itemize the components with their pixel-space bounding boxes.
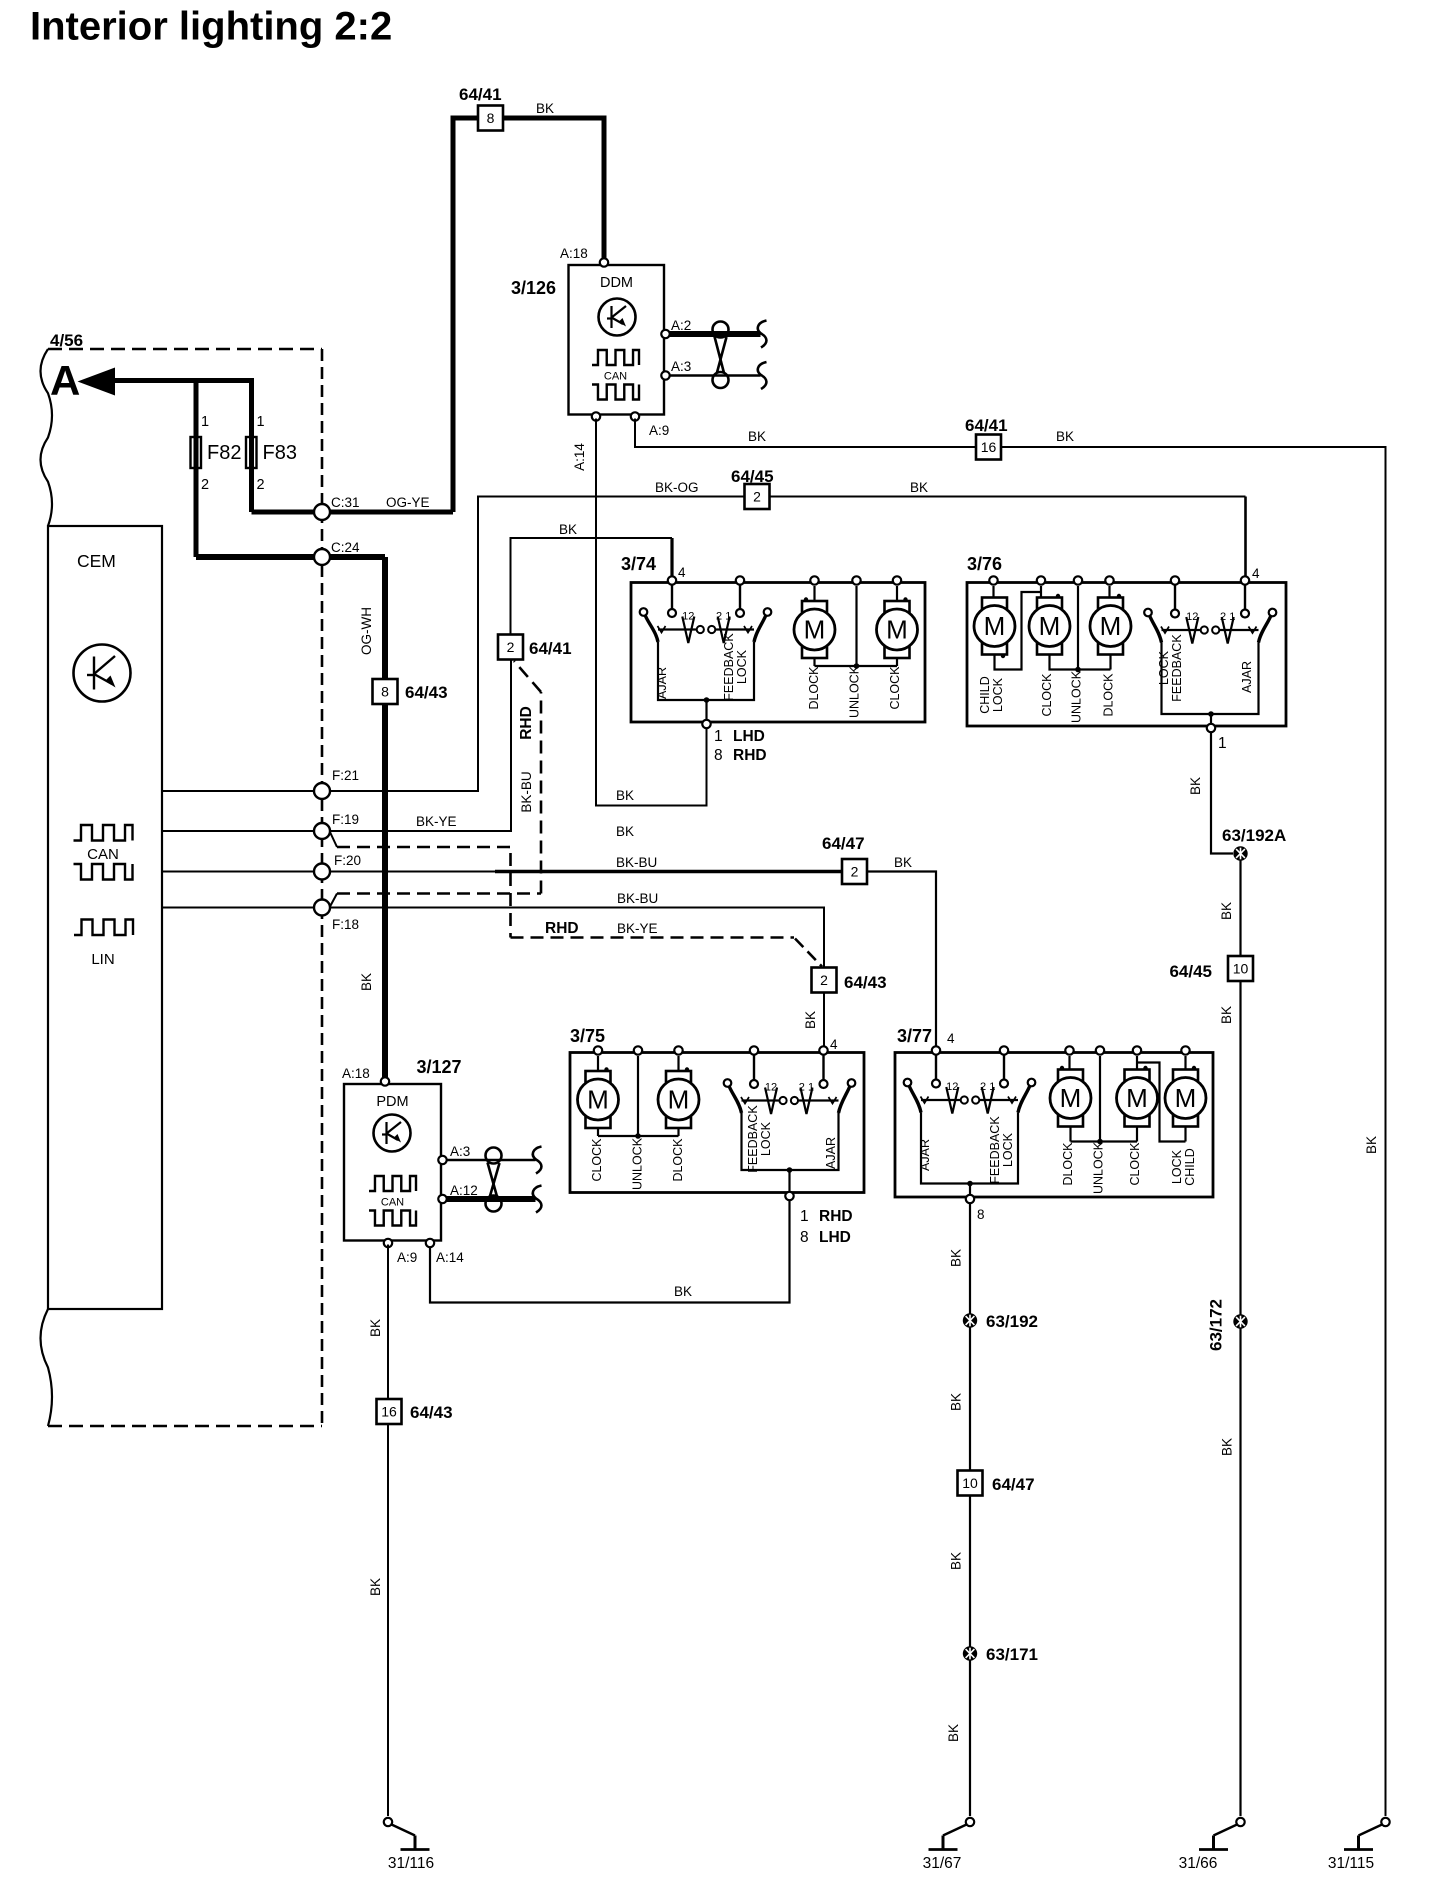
wire — [387, 1245, 389, 1399]
svg-text:F:18: F:18 — [332, 917, 359, 932]
3/75 top pin — [634, 1046, 642, 1054]
wire — [682, 617, 694, 644]
wire — [337, 892, 541, 895]
svg-text:BK: BK — [949, 1249, 964, 1267]
svg-text:8: 8 — [800, 1229, 809, 1246]
junction — [604, 1067, 608, 1071]
svg-text:1: 1 — [800, 1208, 809, 1225]
svg-text:M: M — [1100, 611, 1122, 641]
wire — [969, 1203, 971, 1314]
svg-text:2: 2 — [851, 864, 859, 880]
svg-text:8: 8 — [381, 684, 389, 700]
terminal — [904, 1079, 912, 1087]
wire — [995, 592, 1042, 670]
3/77 top pin — [1096, 1046, 1104, 1054]
wire — [495, 870, 842, 873]
junction — [787, 1167, 793, 1173]
wire — [1211, 732, 1233, 854]
door module PDM 3/127 — [344, 1084, 441, 1241]
door module 3/76 — [967, 583, 1286, 727]
wire break — [533, 1147, 542, 1174]
terminal — [972, 1096, 979, 1103]
DDM pin A:3 — [661, 371, 669, 379]
svg-text:64/41: 64/41 — [529, 639, 572, 658]
wire — [896, 586, 898, 601]
wire — [1137, 1063, 1186, 1142]
wire — [1078, 668, 1111, 670]
junction — [804, 597, 808, 601]
3/77 top pin — [1065, 1046, 1073, 1054]
svg-text:3/75: 3/75 — [570, 1026, 605, 1046]
wire — [1100, 1140, 1137, 1142]
3/76 pin 1 — [1207, 724, 1215, 732]
wire — [330, 497, 745, 792]
svg-text:2: 2 — [257, 477, 265, 493]
terminal — [1201, 626, 1208, 633]
wire — [430, 1200, 790, 1303]
svg-text:8: 8 — [714, 747, 723, 764]
junction — [1117, 594, 1121, 598]
PDM pin A:3 — [438, 1156, 446, 1164]
3/77 pin 8 — [966, 1195, 974, 1203]
svg-text:12: 12 — [1186, 611, 1198, 623]
DDM K symbol — [599, 299, 636, 336]
svg-text:BK: BK — [536, 101, 554, 116]
3/74 top pin — [810, 576, 818, 584]
svg-text:64/41: 64/41 — [965, 416, 1008, 435]
svg-text:16: 16 — [381, 1404, 397, 1420]
svg-text:CHILD: CHILD — [1183, 1148, 1197, 1186]
connector 64/43 pin 16 — [377, 1399, 402, 1424]
connector 64/41 pin 2 — [498, 635, 523, 660]
wire — [509, 853, 512, 938]
svg-text:F:19: F:19 — [332, 812, 359, 827]
svg-text:BK-OG: BK-OG — [655, 480, 699, 495]
junction — [1060, 1066, 1064, 1070]
CEM CAN symbol — [74, 825, 133, 841]
svg-text:A:14: A:14 — [572, 443, 587, 471]
wire — [668, 331, 761, 337]
svg-text:64/45: 64/45 — [731, 467, 774, 486]
wire — [1008, 1097, 1016, 1104]
3/76 top pin — [989, 576, 997, 584]
wire — [337, 846, 511, 849]
svg-text:A:3: A:3 — [450, 1144, 470, 1159]
svg-text:10: 10 — [962, 1475, 978, 1491]
wire — [1186, 617, 1198, 644]
svg-text:RHD: RHD — [545, 920, 579, 937]
wire — [969, 1184, 971, 1195]
svg-text:4: 4 — [678, 565, 686, 580]
svg-text:CLOCK: CLOCK — [1128, 1142, 1142, 1186]
svg-text:16: 16 — [981, 439, 997, 455]
terminal — [1028, 1079, 1036, 1087]
wire — [1210, 714, 1212, 723]
svg-text:BK: BK — [1364, 1136, 1379, 1154]
door module DDM 3/126 — [569, 265, 665, 415]
svg-text:BK: BK — [949, 1393, 964, 1411]
wire — [1162, 629, 1201, 631]
wire — [716, 628, 754, 630]
svg-text:F:21: F:21 — [332, 768, 359, 783]
wire — [1249, 627, 1257, 634]
wire — [668, 374, 761, 376]
wire break — [758, 321, 767, 348]
wire — [896, 658, 898, 666]
junction — [685, 1067, 689, 1071]
wire — [112, 381, 252, 513]
svg-text:3/127: 3/127 — [417, 1057, 462, 1077]
twisted pair symbol — [486, 1148, 502, 1164]
svg-text:64/43: 64/43 — [405, 683, 448, 702]
svg-text:2 1: 2 1 — [980, 1081, 995, 1093]
terminal — [791, 1097, 798, 1104]
svg-text:BK: BK — [894, 855, 912, 870]
svg-text:2: 2 — [201, 477, 209, 493]
junction — [1056, 594, 1060, 598]
wire — [1050, 655, 1079, 670]
wire — [671, 586, 673, 610]
wire break — [533, 1186, 542, 1213]
DDM pin A:2 — [661, 330, 669, 338]
svg-text:CLOCK: CLOCK — [888, 666, 902, 710]
svg-text:BK: BK — [1219, 902, 1234, 920]
wire — [969, 1496, 971, 1647]
svg-text:31/115: 31/115 — [1328, 1855, 1374, 1872]
DDM CAN symbol — [592, 350, 639, 365]
svg-text:M: M — [1175, 1083, 1197, 1113]
fuse F83 — [246, 437, 257, 468]
svg-text:UNLOCK: UNLOCK — [631, 1137, 645, 1190]
svg-text:LHD: LHD — [733, 728, 765, 745]
svg-text:8: 8 — [977, 1207, 985, 1222]
3/74 pin 1/8 — [702, 720, 710, 728]
svg-text:4/56: 4/56 — [50, 331, 83, 350]
svg-text:LOCK: LOCK — [1170, 1149, 1184, 1184]
3/75 top pin — [750, 1046, 758, 1054]
wire — [511, 538, 673, 635]
wire — [1040, 586, 1042, 598]
svg-text:F83: F83 — [263, 442, 297, 464]
splice 63/171 — [963, 1646, 977, 1660]
svg-text:BK: BK — [1056, 429, 1074, 444]
svg-text:DLOCK: DLOCK — [1061, 1142, 1075, 1186]
wire — [921, 1097, 929, 1104]
wire — [48, 1425, 322, 1428]
wire — [330, 908, 825, 968]
3/77 top pin — [1181, 1046, 1189, 1054]
wire — [921, 1113, 1018, 1184]
svg-text:M: M — [1126, 1083, 1148, 1113]
svg-text:BK: BK — [559, 522, 577, 537]
svg-text:12: 12 — [682, 611, 694, 623]
wire — [1222, 617, 1234, 644]
wire — [1161, 627, 1169, 634]
wire — [1184, 1127, 1186, 1142]
wire — [658, 628, 696, 630]
svg-text:UNLOCK: UNLOCK — [848, 665, 862, 718]
wire — [1244, 497, 1247, 580]
svg-text:C:31: C:31 — [331, 495, 360, 510]
svg-text:PDM: PDM — [376, 1094, 408, 1110]
wire — [867, 872, 936, 1050]
PDM K symbol — [374, 1115, 411, 1152]
torn sheet edge — [41, 349, 53, 526]
svg-text:31/66: 31/66 — [1179, 1855, 1218, 1872]
terminal — [668, 609, 676, 617]
svg-text:2: 2 — [507, 639, 515, 655]
connector 64/41 pin 8 — [478, 106, 503, 131]
wire — [1109, 655, 1111, 670]
svg-text:BK: BK — [1188, 777, 1203, 795]
wire — [670, 538, 673, 579]
svg-text:BK: BK — [803, 1011, 818, 1029]
terminal — [640, 608, 648, 616]
svg-text:M: M — [1060, 1083, 1082, 1113]
svg-text:BK: BK — [1219, 1006, 1234, 1024]
terminal — [848, 1079, 856, 1087]
svg-text:2: 2 — [820, 972, 828, 988]
svg-text:64/47: 64/47 — [992, 1475, 1035, 1494]
wire — [765, 1088, 777, 1115]
svg-text:2 1: 2 1 — [799, 1082, 814, 1094]
wire — [705, 700, 707, 719]
wire — [1108, 586, 1110, 598]
svg-text:CAN: CAN — [604, 371, 627, 383]
terminal — [750, 1080, 758, 1088]
wire — [597, 1128, 599, 1136]
wire — [658, 626, 666, 633]
wire — [1136, 1127, 1138, 1142]
svg-text:BK: BK — [748, 429, 766, 444]
wire — [598, 1135, 638, 1137]
svg-text:LHD: LHD — [819, 1229, 851, 1246]
wire — [1244, 586, 1246, 610]
PDM pin A:14 — [426, 1239, 434, 1247]
svg-text:64/45: 64/45 — [1169, 962, 1212, 981]
wire — [330, 660, 512, 831]
wire — [330, 894, 338, 908]
svg-text:RHD: RHD — [733, 747, 767, 764]
splice 63/192A — [1233, 846, 1247, 860]
PDM pin A:18 — [381, 1077, 389, 1085]
wire — [446, 1159, 536, 1161]
wire — [744, 626, 752, 633]
DDM pin A:18 — [600, 258, 608, 266]
svg-text:4: 4 — [830, 1037, 838, 1052]
svg-text:8: 8 — [487, 110, 495, 126]
connector 64/43 pin 2 — [812, 968, 837, 993]
wire — [798, 1099, 838, 1101]
svg-text:A:2: A:2 — [671, 318, 691, 333]
svg-text:2 1: 2 1 — [716, 611, 731, 623]
3/76 top pin — [1241, 576, 1249, 584]
svg-text:DLOCK: DLOCK — [1102, 673, 1116, 717]
svg-text:BK-YE: BK-YE — [416, 814, 457, 829]
wire — [514, 661, 541, 692]
wire — [813, 658, 815, 666]
ground 31/66 — [1236, 1818, 1244, 1826]
svg-text:4: 4 — [1252, 566, 1260, 581]
svg-text:4: 4 — [947, 1031, 955, 1046]
svg-text:BK-YE: BK-YE — [617, 921, 658, 936]
ground 31/67 — [966, 1818, 974, 1826]
svg-text:CLOCK: CLOCK — [590, 1138, 604, 1182]
node F:18 — [314, 900, 330, 916]
wire — [382, 557, 388, 1079]
wire — [800, 1088, 812, 1115]
terminal — [708, 626, 715, 633]
splice 63/172 — [1233, 1314, 1247, 1328]
svg-text:64/41: 64/41 — [459, 85, 502, 104]
svg-text:AJAR: AJAR — [918, 1139, 932, 1171]
terminal — [1000, 1080, 1008, 1088]
wire — [48, 348, 322, 351]
wire — [718, 617, 730, 644]
wire — [1099, 1056, 1101, 1142]
wire — [658, 642, 754, 700]
terminal — [932, 1080, 940, 1088]
wire — [252, 510, 454, 515]
3/75 pin 1/8 — [785, 1192, 793, 1200]
svg-text:LOCK: LOCK — [991, 677, 1005, 712]
3/75 top pin — [819, 1046, 827, 1054]
door module 3/77 — [895, 1053, 1213, 1198]
wire — [1069, 1127, 1071, 1142]
wire — [992, 586, 994, 598]
junction — [1208, 711, 1214, 717]
svg-text:A:12: A:12 — [450, 1183, 478, 1198]
svg-text:BK: BK — [674, 1284, 692, 1299]
junction — [1192, 1066, 1196, 1070]
svg-text:A:3: A:3 — [671, 359, 691, 374]
svg-text:BK: BK — [368, 1319, 383, 1337]
wire — [637, 1056, 639, 1136]
ground 31/115 — [1381, 1818, 1389, 1826]
CEM K symbol — [74, 645, 131, 702]
3/77 top pin — [1000, 1046, 1008, 1054]
svg-text:M: M — [984, 611, 1006, 641]
svg-text:A:14: A:14 — [436, 1250, 464, 1265]
terminal — [1171, 610, 1179, 618]
DDM pin A:9 — [631, 412, 639, 420]
wire — [162, 907, 315, 909]
wire — [822, 1056, 824, 1081]
wire — [969, 1328, 971, 1472]
wire — [813, 586, 815, 601]
svg-text:10: 10 — [1233, 961, 1249, 977]
3/75 top pin — [594, 1046, 602, 1054]
PDM pin A:12 — [438, 1195, 446, 1203]
svg-text:3/74: 3/74 — [621, 554, 656, 574]
wire — [739, 586, 741, 610]
svg-text:63/171: 63/171 — [986, 1645, 1038, 1664]
wire — [162, 871, 315, 873]
wire — [638, 1135, 679, 1137]
wire — [1239, 1329, 1241, 1817]
terminal — [1144, 609, 1152, 617]
svg-text:1: 1 — [257, 414, 265, 430]
junction — [1075, 667, 1081, 673]
wire — [969, 1661, 971, 1817]
terminal — [1212, 626, 1219, 633]
wire — [453, 118, 604, 512]
wire — [946, 1087, 958, 1114]
svg-text:A:9: A:9 — [397, 1250, 417, 1265]
wire — [823, 993, 825, 1050]
svg-text:BK: BK — [359, 973, 374, 991]
fuse F82 — [191, 437, 202, 468]
wire — [1071, 1140, 1101, 1142]
CEM LIN symbol — [74, 920, 133, 936]
wire — [1068, 1056, 1070, 1070]
junction — [903, 597, 907, 601]
wire — [935, 1056, 937, 1080]
terminal — [961, 1096, 968, 1103]
svg-text:BK: BK — [368, 1578, 383, 1596]
wire — [1220, 629, 1259, 631]
svg-text:M: M — [1039, 611, 1061, 641]
svg-text:OG-WH: OG-WH — [359, 607, 374, 655]
svg-text:LOCK: LOCK — [735, 649, 749, 684]
svg-text:M: M — [587, 1085, 609, 1115]
PDM CAN symbol — [369, 1176, 416, 1191]
svg-text:M: M — [886, 615, 908, 645]
svg-text:Interior lighting 2:2: Interior lighting 2:2 — [30, 5, 392, 49]
wire — [1136, 1056, 1138, 1070]
svg-text:UNLOCK: UNLOCK — [1092, 1141, 1106, 1194]
wire — [196, 554, 385, 560]
wire break — [758, 362, 767, 389]
wire — [321, 349, 324, 1426]
wire — [770, 496, 1246, 498]
svg-text:C:24: C:24 — [331, 540, 360, 555]
wire — [677, 1056, 679, 1071]
twisted pair symbol — [713, 322, 729, 338]
3/74 top pin — [668, 576, 676, 584]
wire — [1239, 861, 1241, 957]
svg-text:63/192A: 63/192A — [1222, 826, 1286, 845]
svg-text:LIN: LIN — [91, 951, 114, 968]
wire — [596, 419, 707, 806]
svg-text:CAN: CAN — [381, 1197, 404, 1209]
svg-text:BK: BK — [616, 824, 634, 839]
svg-text:OG-YE: OG-YE — [386, 495, 430, 510]
wire — [829, 1097, 837, 1104]
wire — [857, 665, 898, 667]
junction — [704, 697, 710, 703]
node C:24 — [314, 549, 330, 565]
wire — [982, 1087, 994, 1114]
wire — [815, 665, 857, 667]
wire — [446, 1196, 536, 1202]
svg-text:LOCK: LOCK — [1157, 650, 1171, 685]
svg-text:BK-BU: BK-BU — [617, 891, 658, 906]
3/77 top pin — [932, 1046, 940, 1054]
wire — [597, 1056, 599, 1071]
svg-text:CHILD: CHILD — [978, 676, 992, 714]
terminal — [1269, 609, 1277, 617]
svg-text:FEEDBACK: FEEDBACK — [722, 633, 736, 701]
svg-text:AJAR: AJAR — [1240, 661, 1254, 693]
wire — [741, 1097, 749, 1104]
wire — [330, 831, 338, 847]
wire — [1162, 643, 1259, 715]
3/75 top pin — [674, 1046, 682, 1054]
svg-text:BK: BK — [910, 480, 928, 495]
svg-text:CAN: CAN — [87, 846, 119, 863]
CEM control module box — [48, 526, 162, 1309]
